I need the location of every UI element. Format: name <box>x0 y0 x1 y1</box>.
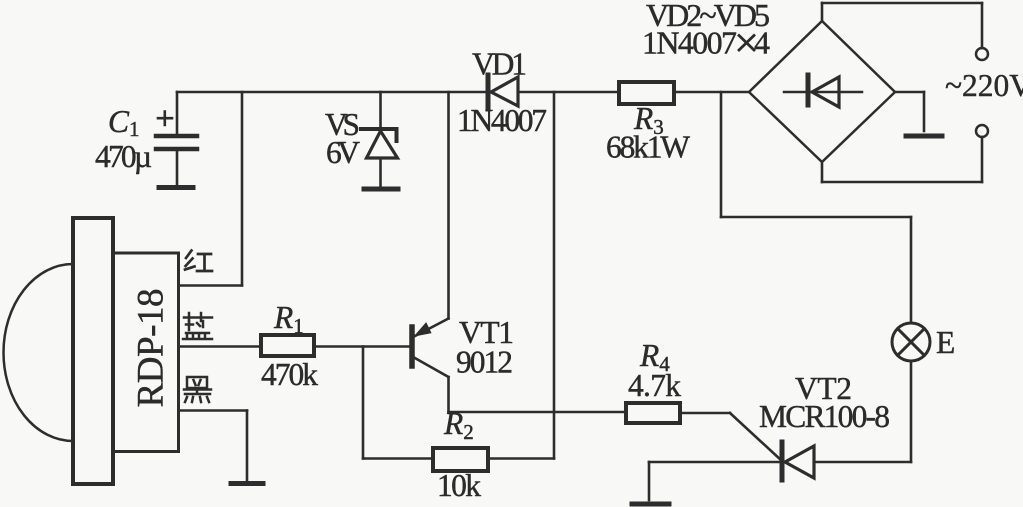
label red (hong) <box>185 251 212 272</box>
wire VD1-anode junction down <box>553 92 556 459</box>
ground (bridge) <box>906 134 942 139</box>
svg-text:MCR100-8: MCR100-8 <box>759 399 890 434</box>
resistor R1 <box>261 335 314 356</box>
wire R4 right <box>680 412 730 415</box>
label multiplication sign <box>738 35 755 52</box>
zener diode VS <box>361 92 398 187</box>
ground (C1) <box>159 185 193 190</box>
label black (hei) <box>184 377 211 402</box>
wire R2 left <box>363 457 433 460</box>
label blue (lan) <box>183 313 212 339</box>
wire black lead <box>179 411 247 481</box>
wire lamp top <box>910 217 913 323</box>
sensor RDP-18 body <box>4 218 179 484</box>
svg-text:~220V: ~220V <box>945 68 1023 103</box>
label plus (C1 polarity) <box>158 112 172 126</box>
thyristor VT2 <box>782 442 814 480</box>
svg-text:9012: 9012 <box>456 345 513 380</box>
wire SCR gate diagonal <box>730 413 782 461</box>
dome <box>4 264 74 441</box>
collector lead <box>414 358 449 378</box>
svg-text:1N4007: 1N4007 <box>642 25 737 61</box>
wire SCR anode horizontal <box>814 461 911 464</box>
wire bridge right to ground <box>895 92 924 131</box>
wire R2 right <box>488 457 554 460</box>
svg-text:68k1W: 68k1W <box>606 130 690 165</box>
emitter lead <box>415 319 449 337</box>
svg-text:4: 4 <box>754 25 770 61</box>
inner diode of bridge <box>784 91 862 94</box>
resistor R4 <box>626 403 680 423</box>
wire base junction down to R2 <box>362 347 365 459</box>
svg-text:1N4007: 1N4007 <box>457 103 547 138</box>
wire top rail left segment <box>177 91 485 94</box>
diode VD1 <box>488 75 518 109</box>
bridge rectifier VD2~VD5 <box>749 21 895 162</box>
emitter arrow <box>416 324 431 336</box>
resistor R2 <box>433 448 488 471</box>
svg-text:VD1: VD1 <box>472 47 527 82</box>
wire collector down <box>447 377 450 412</box>
wire blue lead <box>179 345 261 348</box>
ground (VS) <box>364 187 398 192</box>
wire base from R1 <box>314 345 410 348</box>
wire lamp bottom <box>910 361 913 462</box>
wire bridge bottom to AC terminal <box>822 137 982 182</box>
svg-text:470k: 470k <box>261 357 318 392</box>
svg-text:E: E <box>936 325 955 360</box>
terminal circle AC bottom <box>976 125 988 137</box>
wire collector horizontal to R4 <box>449 411 627 414</box>
wire SCR cathode horizontal <box>649 461 780 464</box>
capacitor C1 <box>156 92 197 185</box>
svg-text:470µ: 470µ <box>95 139 152 174</box>
terminal circle AC top <box>976 48 988 60</box>
wire emitter vertical <box>447 92 450 319</box>
wire lamp branch horizontal <box>721 216 911 219</box>
wire rail junction down (to lamp branch) <box>720 92 723 217</box>
wire red lead vertical <box>241 92 244 286</box>
ground (SCR) <box>632 502 669 507</box>
ground (black lead) <box>231 481 263 486</box>
svg-text:6V: 6V <box>326 135 360 170</box>
wire SCR ground vertical <box>648 462 651 500</box>
lamp E <box>892 323 930 361</box>
wire top rail right segment <box>674 91 749 94</box>
transistor Q1 VT1 <box>412 319 449 378</box>
resistor R3 <box>619 82 674 104</box>
svg-text:10k: 10k <box>437 468 481 503</box>
wire red lead horizontal <box>179 284 242 287</box>
svg-text:RDP-18: RDP-18 <box>131 289 172 408</box>
svg-text:4.7k: 4.7k <box>628 368 681 403</box>
wire top rail mid segment <box>518 91 619 94</box>
wire bridge top to AC terminal <box>822 3 982 48</box>
node red-wire junction <box>179 92 242 286</box>
